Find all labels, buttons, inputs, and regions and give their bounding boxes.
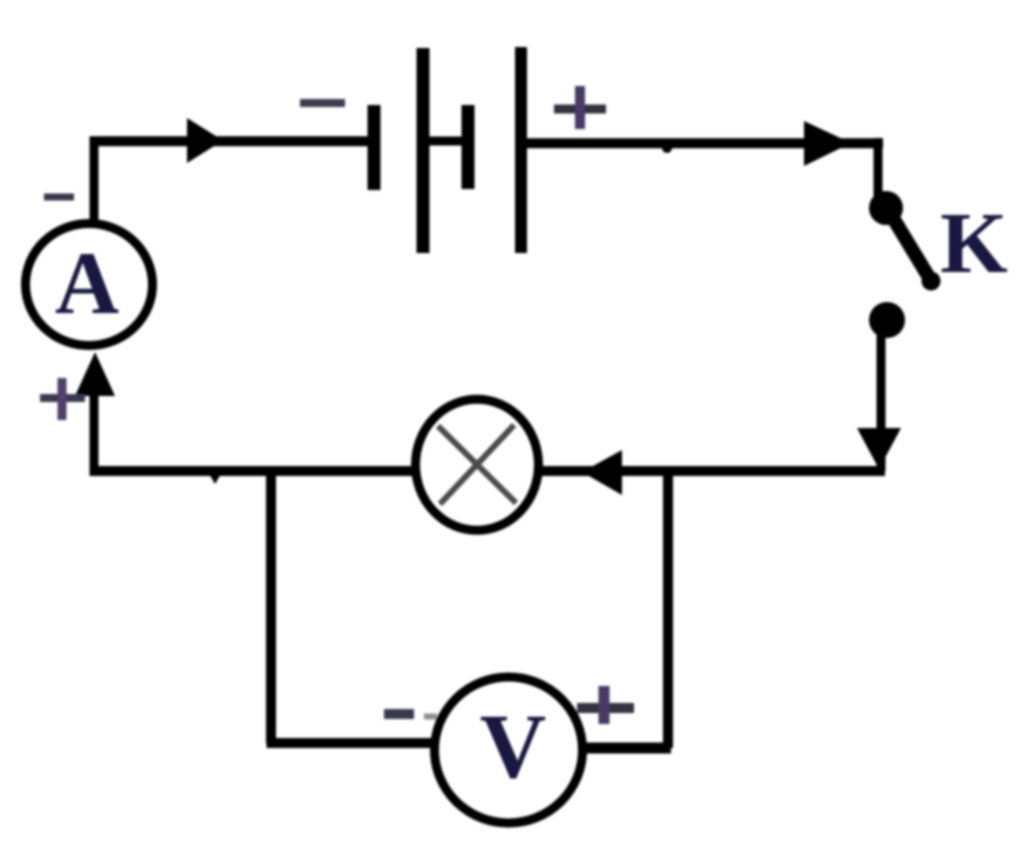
wire voltmeter branch left horizontal: [267, 738, 441, 748]
junction tick on top-right wire: [662, 143, 672, 153]
wire top-right horizontal from battery plus to switch corner: [527, 138, 883, 148]
wire voltmeter branch right vertical: [663, 467, 673, 748]
label plus right of battery: [554, 105, 606, 114]
svg-text:K: K: [940, 194, 1008, 291]
arrow pointing up into ammeter: [75, 352, 115, 396]
ammeter A1 circle: [26, 224, 153, 346]
wire bottom horizontal left segment: [90, 466, 431, 476]
arrow on top-right wire (pointing right): [804, 121, 851, 166]
wire voltmeter branch right horizontal: [580, 743, 671, 754]
arrow pointing left into lamp: [582, 450, 622, 495]
battery B1 left cell short plate (negative): [368, 105, 381, 190]
label plus right of voltmeter: [577, 703, 634, 713]
label minus above battery left: [300, 99, 345, 107]
battery link wire between cells: [427, 137, 465, 146]
arrow on top-left wire (pointing right): [187, 118, 223, 163]
switch K blade: [890, 213, 930, 279]
label minus above ammeter: [44, 194, 74, 201]
switch K top contact dot: [869, 191, 903, 225]
wire top-left horizontal from ammeter corner to battery minus plate: [90, 136, 369, 146]
junction tick on bottom wire: [208, 472, 222, 484]
lamp X stroke 2: [440, 425, 514, 504]
wire from ammeter bottom down to bottom-left corner: [90, 380, 99, 471]
arrow pointing down on right vertical: [857, 428, 901, 469]
voltmeter V1 circle: [435, 677, 583, 823]
wire right vertical from switch down to bottom corner: [877, 330, 886, 471]
wire voltmeter branch left vertical: [266, 467, 276, 743]
lamp L1 circle: [416, 399, 539, 530]
lamp X stroke 1: [438, 426, 516, 503]
label minus left of voltmeter: [384, 709, 414, 719]
svg-text:V: V: [480, 695, 546, 797]
switch K bottom contact dot: [869, 302, 905, 338]
battery B2 right cell tall plate (positive): [515, 47, 527, 253]
ghost dash near voltmeter ring: [424, 714, 437, 720]
wire bottom horizontal right segment: [528, 466, 885, 476]
wire left vertical from top corner down to ammeter: [90, 138, 99, 226]
battery B1 left cell tall plate: [417, 48, 430, 253]
svg-text:A: A: [55, 235, 119, 333]
label plus below ammeter: [40, 394, 85, 402]
battery B2 right cell short plate: [462, 105, 475, 189]
wire short vertical from top-right corner down to switch: [874, 138, 883, 196]
